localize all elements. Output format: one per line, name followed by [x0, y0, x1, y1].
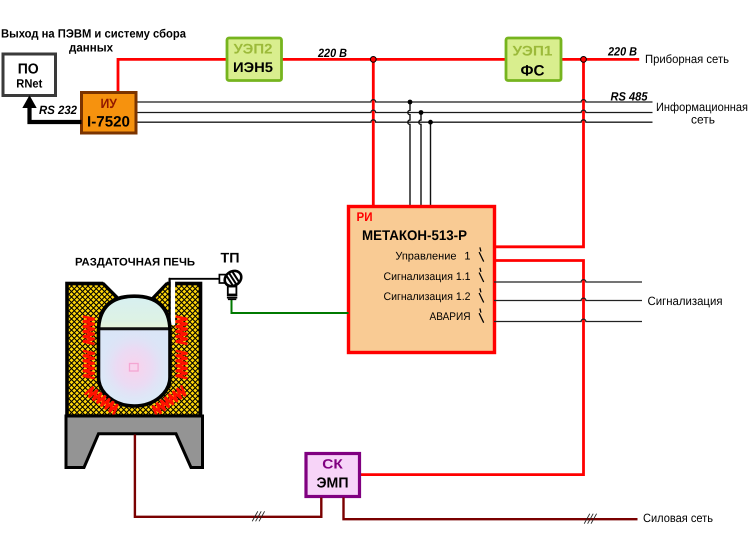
svg-text:1: 1 [464, 251, 470, 263]
svg-text:220 В: 220 В [317, 46, 347, 60]
svg-text:УЭП2: УЭП2 [234, 41, 273, 57]
svg-text:СК: СК [322, 456, 343, 471]
svg-text:ИЭН5: ИЭН5 [233, 59, 273, 75]
svg-text:Сигнализация 1.1: Сигнализация 1.1 [384, 271, 471, 283]
svg-text:данных: данных [69, 40, 113, 54]
svg-text:ФС: ФС [521, 62, 545, 79]
svg-text:Выход на ПЭВМ и систему сбора: Выход на ПЭВМ и систему сбора [1, 26, 186, 40]
svg-text:ЭМП: ЭМП [317, 476, 349, 492]
svg-text:RS 232: RS 232 [39, 103, 77, 117]
svg-text:Сигнализация 1.2: Сигнализация 1.2 [384, 291, 471, 303]
svg-text:RS 485: RS 485 [611, 90, 648, 104]
svg-text:МЕТАКОН-513-Р: МЕТАКОН-513-Р [362, 227, 467, 243]
svg-text:Сигнализация: Сигнализация [648, 294, 723, 308]
svg-text:Приборная сеть: Приборная сеть [645, 52, 729, 66]
svg-text:ИУ: ИУ [100, 96, 117, 111]
svg-text:Управление: Управление [395, 251, 456, 263]
svg-text:сеть: сеть [691, 112, 715, 126]
svg-text:220 В: 220 В [607, 44, 637, 58]
svg-text:АВАРИЯ: АВАРИЯ [430, 311, 471, 323]
svg-text:RNet: RNet [16, 76, 42, 90]
svg-text:Силовая сеть: Силовая сеть [643, 511, 713, 525]
svg-text:РАЗДАТОЧНАЯ ПЕЧЬ: РАЗДАТОЧНАЯ ПЕЧЬ [75, 257, 195, 269]
svg-text:I-7520: I-7520 [87, 113, 130, 130]
svg-text:УЭП1: УЭП1 [513, 43, 553, 59]
svg-text:ПО: ПО [18, 61, 39, 77]
svg-text:РИ: РИ [357, 210, 373, 224]
svg-text:ТП: ТП [221, 249, 240, 265]
